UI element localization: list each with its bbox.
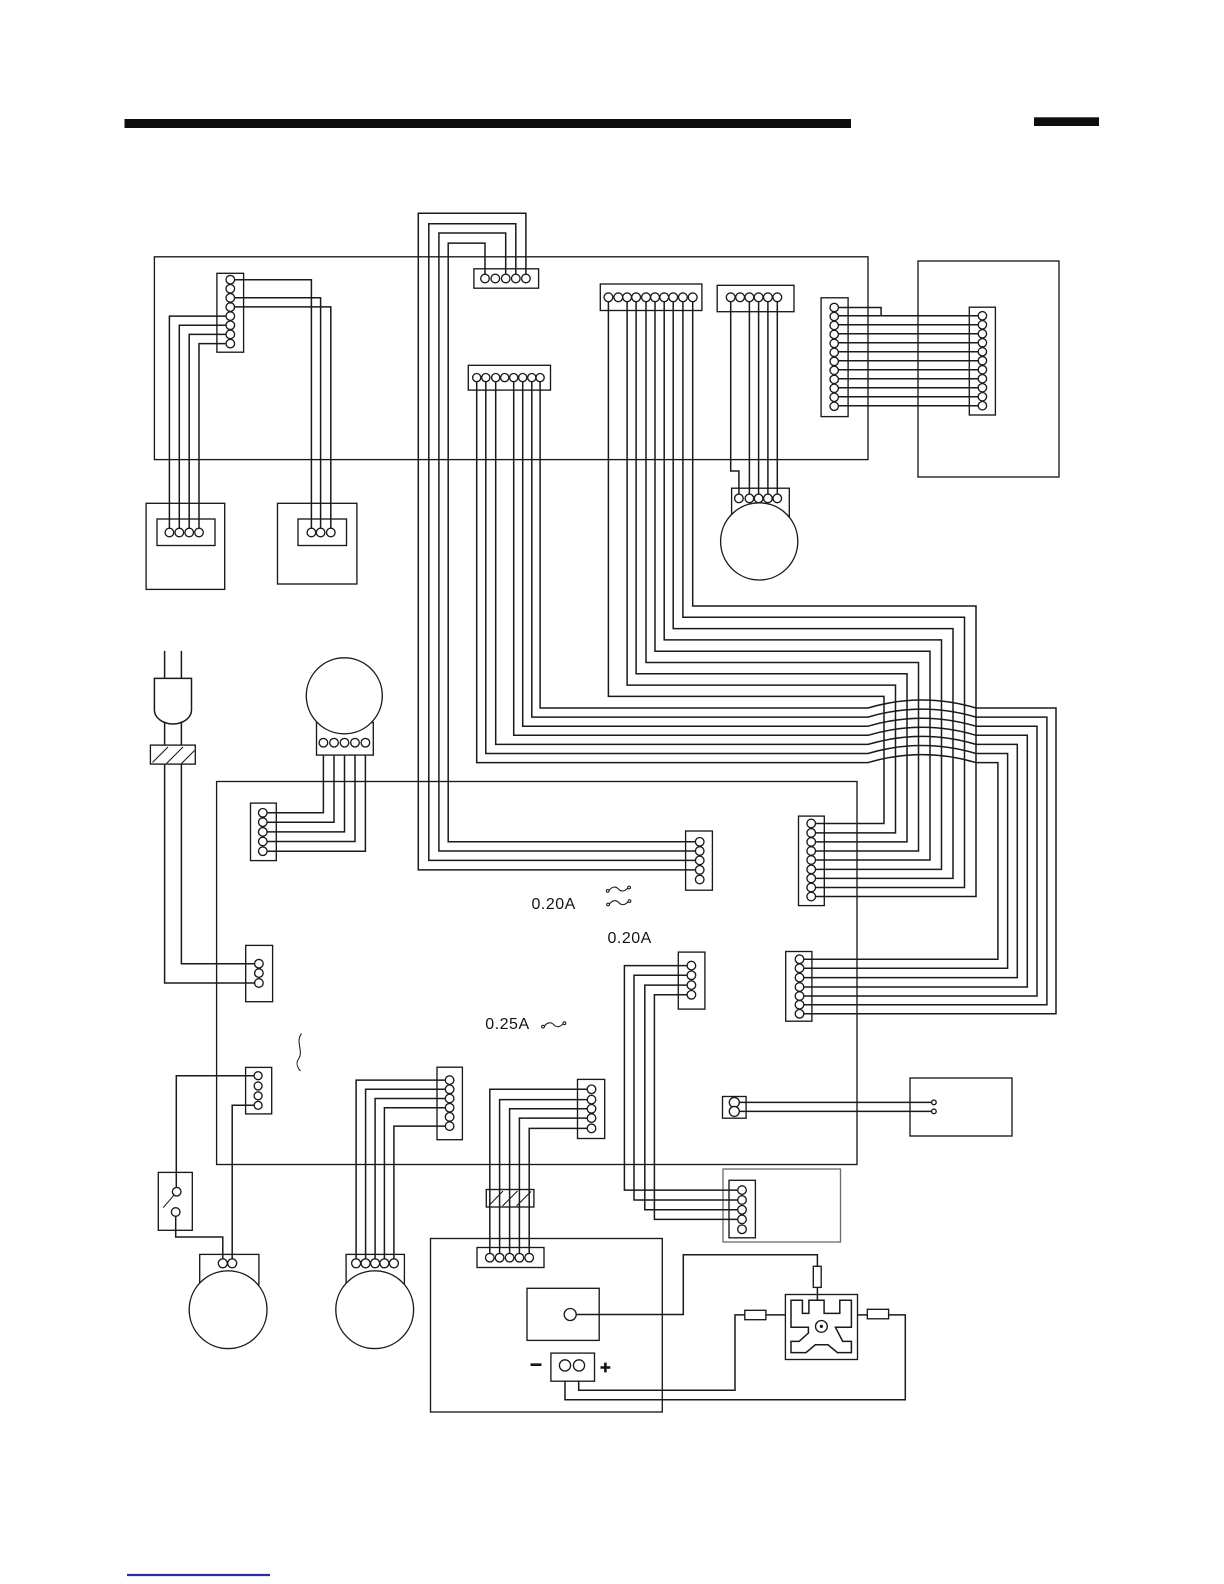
fan motor M1 connector	[732, 488, 790, 517]
wire CN14-5 to CN15-5	[529, 1128, 587, 1253]
control panel box	[154, 257, 868, 460]
wire fan M2 pin2 to CN7-2	[267, 755, 334, 822]
connector CN6L (12-pin)	[821, 298, 848, 417]
connector CN16 (4-pin)	[678, 952, 705, 1009]
power plug body	[154, 678, 191, 724]
wire CN4-3 to CN11-5 with crossover hop	[523, 382, 1037, 996]
wire CN6 ribbon 9	[838, 378, 978, 380]
connector CN10 (9-pin)	[799, 816, 825, 906]
wire CN16-1 to CN17-1	[624, 966, 737, 1191]
fuse symbol 1	[609, 887, 628, 891]
auger motor connector	[346, 1254, 404, 1284]
wire CN4-7 to CN11-1 with crossover hop	[477, 382, 998, 960]
wire CN13-5 to auger motor	[394, 1126, 445, 1259]
wire CN1-7 to box A	[189, 334, 226, 528]
top right box	[918, 261, 1059, 477]
wire CN3-7 to CN10-7	[673, 302, 953, 879]
box B terminals	[307, 528, 316, 537]
cord bushing (hatched)	[150, 745, 195, 764]
wire CN18-2 to sensor	[739, 1110, 931, 1112]
wire CN2-1 loop to CN9-1	[448, 243, 695, 842]
connector CN1 (8-pin left)	[217, 273, 244, 352]
battery holder	[551, 1353, 595, 1381]
igniter U1 electrode shape	[791, 1300, 851, 1352]
wire CN3-6 to CN10-6	[664, 302, 941, 870]
connector CN8 (3-pin)	[246, 945, 273, 1001]
wire fan M2 pin4 to CN7-4	[267, 755, 355, 841]
wire CN1-3 to box B	[235, 298, 321, 528]
wire fan M2 pin3 to CN7-3	[267, 755, 344, 832]
wire CN6 ribbon 12	[838, 405, 978, 407]
wire CN1-6 to box A	[179, 325, 226, 528]
connector CN11 (7-pin)	[786, 952, 812, 1022]
svg-text:0.20A: 0.20A	[608, 930, 652, 947]
wire fan M2 pin5 to CN7-5	[267, 755, 365, 851]
main board box	[217, 782, 857, 1165]
wire CN5-6 to fan motor M1	[776, 302, 778, 494]
svg-text:0.20A: 0.20A	[532, 896, 576, 913]
power plug prong L	[164, 651, 166, 679]
bottom unit box	[431, 1239, 663, 1413]
wire CN3-5 to CN10-5	[655, 302, 930, 860]
connector CN3 (10-pin)	[600, 284, 702, 311]
door switch S1	[158, 1172, 192, 1230]
wire CN1-1 to box B	[235, 280, 312, 529]
resistor R2	[745, 1310, 766, 1319]
fan motor M2 connector	[317, 723, 374, 756]
igniter center dot	[820, 1325, 823, 1328]
bushing hatch 2	[167, 747, 184, 764]
wire thermostat to resistor R1	[576, 1255, 817, 1315]
bushing2 hatch 2	[503, 1191, 518, 1206]
wire CN6 ribbon 2	[838, 315, 978, 317]
wire CN13-1 to auger motor	[356, 1080, 445, 1259]
power wire to CN8-3	[165, 764, 255, 983]
wire CN1-8 to box A	[199, 344, 226, 529]
sensor box right	[910, 1078, 1012, 1136]
wire CN14-3 to CN15-3	[510, 1109, 588, 1254]
wire igniter to R3	[858, 1314, 868, 1316]
wire CN3-9 to CN10-9	[693, 302, 976, 897]
wire CN5-1 to fan motor M1 (jog)	[731, 302, 739, 494]
fan motor M2 body	[306, 658, 382, 734]
component box A terminal block	[157, 519, 215, 546]
wire CN2-4 loop to CN9-3	[429, 224, 696, 861]
fuse symbol 2	[609, 901, 628, 905]
wire CN16-4 to CN17-4	[654, 995, 737, 1220]
wire CN14-1 to CN15-1	[490, 1089, 587, 1253]
lamp motor connector	[200, 1254, 259, 1284]
wire CN3-1 to CN10-1	[608, 302, 884, 824]
battery terminal -	[559, 1360, 570, 1371]
title bar	[125, 119, 852, 128]
wire CN4-4 to CN11-4 with crossover hop	[514, 382, 1028, 987]
wire CN6 ribbon 3	[838, 324, 978, 326]
connector CN18 (2-pin)	[723, 1097, 747, 1119]
plus label	[601, 1363, 611, 1373]
wire CN5-3 to fan motor M1	[748, 302, 750, 494]
wire bushing 2 (hatched)	[486, 1190, 534, 1208]
component box A outer	[146, 503, 225, 589]
connector CN2 (5-pin top)	[474, 269, 539, 288]
wire CN6 ribbon 8	[838, 369, 978, 371]
thermostat box	[527, 1288, 599, 1340]
footer rule	[127, 1574, 270, 1576]
wire CN16-3 to CN17-3	[645, 985, 738, 1210]
wire CN6 ribbon 5	[838, 342, 978, 344]
connector CN4 (8-pin)	[468, 365, 550, 390]
box A terminals	[165, 528, 174, 537]
wire CN2-5 loop to CN9-4	[418, 213, 695, 870]
wire R3 to battery-	[565, 1315, 905, 1400]
wire CN4-2 to CN11-6 with crossover hop	[532, 382, 1047, 1005]
wire CN6 ribbon 6	[838, 351, 978, 353]
resistor R1	[813, 1266, 821, 1287]
component box B outer	[278, 503, 357, 584]
bushing2 hatch 1	[489, 1191, 503, 1206]
connector CN6R (11-pin)	[969, 307, 995, 415]
wire CN3-8 to CN10-8	[683, 302, 965, 888]
minus label	[531, 1363, 542, 1366]
power wire to CN8-1	[181, 764, 254, 964]
wire CN6 ribbon 7	[838, 360, 978, 362]
sensor terminal 1	[932, 1100, 937, 1105]
wire CN13-2 to auger motor	[366, 1089, 446, 1259]
power cord R	[180, 722, 182, 746]
connector CN13 (6-pin)	[437, 1067, 462, 1140]
connector CN15 (5-pin bottom)	[477, 1248, 544, 1268]
wire CN12-1 to door switch	[176, 1076, 254, 1188]
wire CN14-2 to CN15-2	[500, 1100, 588, 1254]
connector CN9 (5-pin middle)	[686, 831, 713, 890]
battery terminal +	[573, 1360, 584, 1371]
wire CN14-4 to CN15-4	[519, 1118, 587, 1253]
sensor terminal 2	[932, 1109, 937, 1114]
lamp motor body	[189, 1271, 267, 1349]
wire CN1-5 to box A	[169, 316, 226, 528]
resistor R3	[867, 1309, 888, 1319]
igniter U1 body	[785, 1295, 857, 1360]
wire battery+ to R2	[579, 1315, 745, 1390]
connector CN5 (6-pin)	[717, 285, 794, 311]
wire CN5-5 to fan motor M1	[767, 302, 769, 494]
igniter center ring	[816, 1321, 828, 1333]
wire CN3-4 to CN10-4	[646, 302, 919, 851]
wire CN1-4 to box B	[235, 307, 331, 528]
wire CN4-1 to CN11-7 with crossover hop	[540, 382, 1056, 1014]
connector CN17 (5-pin relay)	[729, 1180, 755, 1238]
connector CN14 (5-pin)	[578, 1079, 605, 1138]
wire CN3-2 to CN10-2	[627, 302, 895, 833]
wire fan M2 pin1 to CN7-1	[267, 755, 323, 813]
relay box	[723, 1169, 841, 1242]
wire CN18-1 to sensor	[739, 1101, 931, 1103]
connector CN7 (5-pin)	[251, 803, 277, 861]
fan motor M1 body	[721, 503, 798, 580]
switch lever	[163, 1195, 174, 1207]
bushing hatch 1	[153, 747, 169, 763]
thermostat contact	[564, 1309, 576, 1321]
wire CN12-4 to lamp motor	[232, 1105, 254, 1259]
wire CN13-3 to auger motor	[375, 1099, 445, 1259]
component box B terminal block	[298, 519, 347, 546]
power cord L	[164, 722, 166, 746]
connector CN12 (4-pin)	[246, 1067, 272, 1114]
wire CN4-5 to CN11-3 with crossover hop	[496, 382, 1018, 978]
wire CN6 ribbon 10	[838, 387, 978, 389]
wire R2 to igniter	[766, 1314, 786, 1316]
wire CN6 ribbon 4	[838, 333, 978, 335]
wire R1 to igniter	[816, 1287, 818, 1300]
wire door switch to lamp motor	[176, 1216, 223, 1259]
wire CN6 ribbon 11	[838, 396, 978, 398]
svg-text:0.25A: 0.25A	[485, 1016, 529, 1033]
wire harness brace	[297, 1034, 301, 1072]
page-number bar	[1034, 117, 1099, 126]
fuse symbol 3	[544, 1023, 563, 1027]
power plug prong R	[180, 651, 182, 679]
wire CN13-4 to auger motor	[384, 1108, 445, 1259]
wire CN3-3 to CN10-3	[636, 302, 907, 842]
wire CN2-3 loop to CN9-2	[439, 233, 696, 851]
wire CN6-1 ribbon jog	[838, 308, 881, 316]
bushing hatch 3	[182, 751, 195, 764]
wire CN16-2 to CN17-2	[634, 975, 738, 1200]
bushing2 hatch 3	[517, 1192, 532, 1207]
wire CN5-4 to fan motor M1	[758, 302, 760, 494]
auger motor body	[336, 1271, 414, 1349]
wire CN4-6 to CN11-2 with crossover hop	[486, 382, 1008, 969]
